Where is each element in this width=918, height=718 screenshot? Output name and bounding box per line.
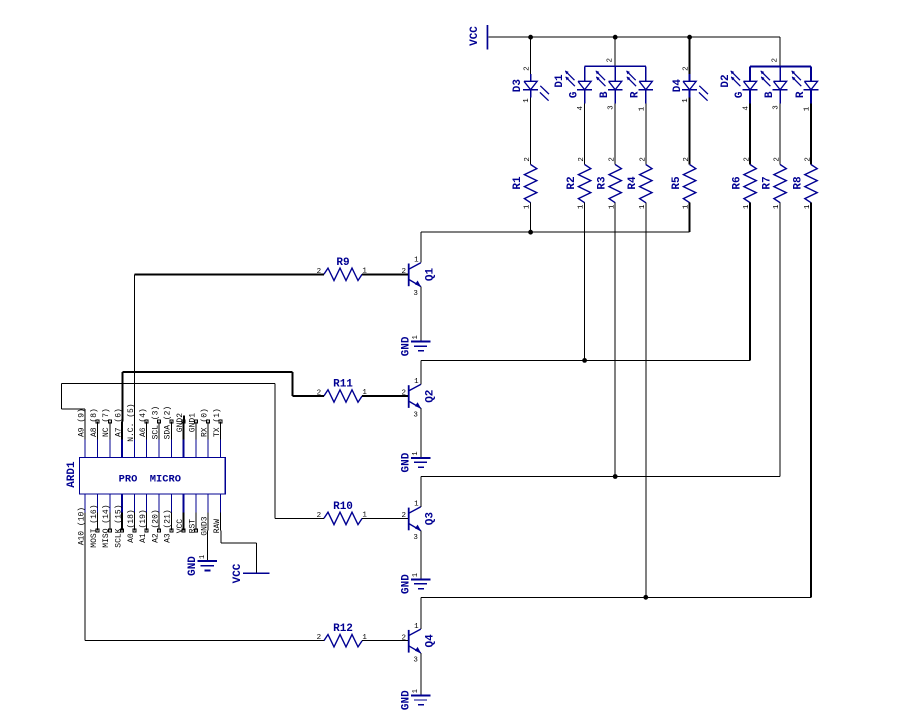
svg-text:Q2: Q2 [424, 390, 436, 403]
svg-text:3: 3 [773, 105, 781, 110]
svg-text:A0 (18): A0 (18) [127, 509, 136, 543]
svg-text:VCC: VCC [176, 519, 185, 534]
svg-text:G: G [734, 91, 746, 98]
svg-text:R: R [630, 91, 642, 98]
svg-text:R3: R3 [597, 176, 609, 190]
svg-text:2: 2 [609, 157, 617, 162]
svg-text:B: B [764, 91, 776, 98]
svg-text:A1 (19): A1 (19) [139, 509, 148, 543]
svg-text:GND: GND [187, 556, 199, 576]
svg-text:1: 1 [638, 106, 646, 111]
svg-text:R4: R4 [627, 176, 639, 190]
svg-text:A6 (4): A6 (4) [139, 408, 148, 437]
svg-text:2: 2 [805, 157, 813, 162]
svg-text:R6: R6 [731, 176, 743, 189]
svg-text:1: 1 [414, 257, 419, 265]
svg-text:A7 (6): A7 (6) [115, 408, 124, 437]
svg-text:R: R [795, 91, 807, 98]
svg-text:PRO MICRO: PRO MICRO [119, 474, 181, 486]
svg-text:D4: D4 [672, 79, 684, 93]
svg-text:RX (0): RX (0) [201, 408, 210, 437]
svg-text:R2: R2 [566, 176, 578, 189]
svg-text:A3 (21): A3 (21) [164, 509, 173, 543]
svg-text:R9: R9 [336, 257, 349, 269]
svg-text:2: 2 [772, 58, 780, 63]
svg-text:GND: GND [400, 452, 412, 472]
svg-text:SCL (3): SCL (3) [151, 406, 160, 440]
svg-text:1: 1 [414, 623, 419, 631]
svg-text:3: 3 [413, 656, 418, 664]
svg-text:2: 2 [524, 66, 532, 71]
svg-text:2: 2 [744, 157, 752, 162]
svg-text:R5: R5 [671, 176, 683, 190]
svg-text:2: 2 [683, 157, 691, 162]
svg-text:1: 1 [414, 501, 419, 509]
svg-text:D2: D2 [720, 74, 732, 87]
svg-text:A9 (9): A9 (9) [78, 408, 87, 437]
svg-text:SDA (2): SDA (2) [164, 406, 173, 440]
svg-text:R1: R1 [512, 176, 524, 190]
svg-text:ARD1: ARD1 [66, 461, 78, 488]
svg-text:1: 1 [412, 335, 420, 339]
svg-text:1: 1 [199, 555, 207, 559]
svg-text:R8: R8 [792, 176, 804, 190]
svg-text:GND: GND [400, 574, 412, 594]
svg-text:2: 2 [578, 157, 586, 162]
svg-text:D1: D1 [554, 74, 566, 88]
svg-text:SCLK (15): SCLK (15) [115, 504, 124, 547]
svg-text:VCC: VCC [232, 563, 244, 583]
svg-text:VCC: VCC [469, 26, 481, 46]
svg-text:R7: R7 [761, 176, 773, 189]
svg-text:GND1: GND1 [188, 413, 197, 432]
svg-text:R12: R12 [333, 623, 353, 635]
svg-text:3: 3 [413, 290, 418, 298]
svg-text:3: 3 [413, 534, 418, 542]
svg-text:Q3: Q3 [424, 512, 436, 526]
svg-text:Q1: Q1 [424, 267, 436, 281]
svg-text:A10 (10): A10 (10) [78, 507, 87, 545]
svg-text:MOSI (16): MOSI (16) [90, 504, 99, 547]
svg-text:RST: RST [188, 519, 197, 534]
svg-text:N.C. (5): N.C. (5) [127, 403, 136, 441]
svg-text:R10: R10 [333, 501, 353, 513]
svg-text:Q4: Q4 [424, 634, 436, 648]
svg-text:B: B [599, 91, 611, 98]
svg-text:1: 1 [523, 98, 531, 103]
svg-text:1: 1 [414, 378, 419, 386]
svg-text:4: 4 [577, 106, 585, 111]
svg-text:2: 2 [607, 58, 615, 63]
svg-text:1: 1 [412, 451, 420, 455]
svg-text:2: 2 [524, 157, 532, 162]
svg-text:A2 (20): A2 (20) [151, 509, 160, 543]
svg-text:3: 3 [413, 412, 418, 420]
svg-text:1: 1 [412, 573, 420, 577]
svg-text:NC (7): NC (7) [102, 408, 111, 437]
svg-text:GND: GND [400, 690, 412, 710]
svg-text:D3: D3 [512, 79, 524, 93]
svg-text:G: G [568, 91, 580, 98]
svg-text:2: 2 [639, 157, 647, 162]
svg-text:2: 2 [774, 157, 782, 162]
svg-text:A8 (8): A8 (8) [90, 408, 99, 437]
svg-text:3: 3 [608, 105, 616, 110]
svg-text:GND3: GND3 [201, 516, 210, 535]
svg-text:GND: GND [400, 336, 412, 356]
svg-text:R11: R11 [333, 379, 353, 391]
svg-text:2: 2 [683, 66, 691, 71]
svg-text:TX (1): TX (1) [213, 408, 222, 437]
svg-text:MISO (14): MISO (14) [102, 504, 111, 547]
svg-text:1: 1 [412, 689, 420, 693]
